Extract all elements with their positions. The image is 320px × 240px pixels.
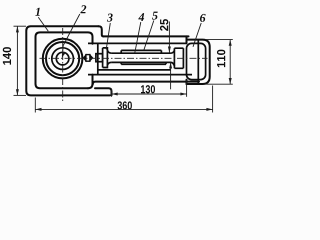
part 6 end cap outer outline [187,40,210,84]
label 6 end cap [200,14,206,22]
bearing boss chamfer circle [46,42,79,75]
label 5 sleeve [152,12,158,20]
leader line for label 2 [62,14,80,56]
horizontal centerline [40,57,208,59]
part 4 shaft top edge [111,52,170,54]
dimension 130 dimension line [112,93,187,95]
label 1 housing [35,8,40,16]
vertical centerline [62,28,64,102]
part 1 housing: left block outer outline [26,26,110,95]
part 1 housing: boss rounded rectangle right-bottom corner [88,75,93,89]
right flange neck fillet bottom [171,62,175,66]
leader line for label 1 [38,17,48,31]
label 2 bushing [80,5,86,13]
label 4 shaft [138,13,144,21]
left shaft flange disc left edge [102,48,104,68]
left flange neck fillet top [107,50,111,53]
clamp nub body [86,55,90,62]
part 1 housing: arm top outer edge [104,35,189,37]
part 5 sleeve top line with end ticks [121,50,161,53]
dimension 130 right arrowhead [180,93,186,96]
dimension text 130 [141,85,155,93]
dimension 25 down arrowhead [168,47,171,53]
right shaft flange disc right edge [182,48,184,68]
part 6 end cap internal joint line [197,40,199,84]
guide channel top inner line [88,42,187,44]
part 6 end cap pocket (inner rounded rectangle) [187,43,206,79]
clamp nub left wedge [83,55,86,61]
part 1 housing: block top-right shoulder [99,26,104,36]
dimension 25 upper leader line [168,22,170,53]
part 3 coupling cylinder [96,54,103,62]
dimension 360 left arrowhead [35,108,41,111]
dimension 130 left extension line [111,89,113,97]
dimension 360 left extension line [34,98,36,113]
dimension 140 bottom arrowhead [16,89,19,95]
left shaft flange disc outline [103,48,108,68]
part 1 housing: arm bottom outer edge [93,82,199,85]
dimension 360 dimension line [35,108,212,110]
dimension 140 bottom extension line [14,94,27,96]
guide channel bottom inner line [88,74,192,76]
dimension 110 top arrowhead [229,40,232,46]
dimension 110 bottom arrowhead [229,78,232,84]
right shaft flange disc top and bottom edges [174,48,183,68]
part 6 end cap: step to arm bottom [186,80,188,84]
right flange neck fillet top [171,50,175,53]
right shaft flange disc left edge [173,48,175,68]
label 3 coupling [107,14,113,22]
dimension 140 dimension line [16,26,18,95]
part 2 bushing circle [52,48,74,70]
part 1 housing: base step outline at x=111.5 [95,88,112,95]
dimension text 25 [160,19,168,31]
dimension 130 left arrowhead [112,93,118,96]
dimension 360 right extension line [212,86,214,113]
slot edge line below shaft [98,69,171,71]
dimension text 140 [3,47,11,65]
part 4 shaft bottom edge [111,61,170,63]
leader line for label 4 [135,22,141,53]
part 1 housing: step to end-cap top [186,36,188,43]
part 1 housing: boss rounded rectangle (top face) left/top/bottom [36,32,93,88]
bore circle [56,52,69,65]
leader line for label 5 [144,21,154,51]
left flange neck fillet bottom [107,62,111,65]
dimension 25 lower leader line [170,62,172,89]
dimension 140 top arrowhead [16,26,19,32]
part 5 sleeve bottom line with end ticks [121,62,166,64]
guide channel left end wall [97,43,99,74]
dimension 110 top extension line [205,39,233,41]
dimension 140 top extension line [14,25,27,27]
dimension 130 right extension line [186,80,188,97]
leader line for label 6 [193,23,201,47]
bearing boss outer circle [43,39,83,79]
clamp nub right wedge [90,55,93,61]
dimension text 110 [217,50,225,68]
dimension 110 bottom extension line [205,83,233,85]
dimension 110 dimension line [229,40,231,85]
dimension text 360 [118,101,132,109]
leader line for label 3 [106,23,110,50]
leader 2 arrowhead at bore center [62,52,66,58]
dimension 25 up arrowhead [169,62,172,68]
dimension 360 right arrowhead [206,108,212,111]
